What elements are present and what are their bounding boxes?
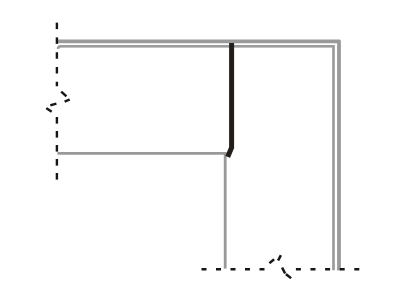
junction: left break symbol dash 2: [65, 100, 70, 102]
wire: thin gray step line (horizontal shelf + middle vertical drop): [57, 153, 225, 268]
junction: left break symbol dash 4: [46, 108, 51, 112]
junction: left break symbol dash 1: [61, 92, 66, 97]
node A: left vertical dashed centerline, upper segment: [56, 23, 58, 87]
junction: bottom break symbol dash 1: [269, 259, 274, 263]
wire: inner gray profile line (top horizontal + right vertical, inner face): [58, 46, 333, 270]
wire: small down-hook at left end of inner line: [58, 46, 60, 49]
node D: bottom horizontal dashed centerline, right segment: [296, 268, 360, 271]
node C: bottom horizontal dashed centerline, left segment: [202, 268, 267, 271]
node B: left vertical dashed centerline, lower segment: [56, 117, 58, 182]
junction: bottom break symbol dash 3: [282, 268, 285, 274]
junction: bottom break symbol dash 2: [278, 255, 281, 260]
junction: left break symbol dash 3: [50, 104, 56, 106]
wire: outer gray profile line (top horizontal + right vertical, outer face): [57, 41, 339, 270]
wire: thick black gasket line with bent lower tip: [228, 43, 232, 157]
junction: bottom break symbol dash 4: [286, 274, 291, 278]
